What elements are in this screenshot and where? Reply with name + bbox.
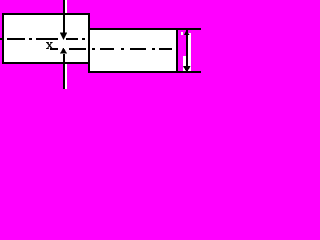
background <box>0 0 201 89</box>
white residue strip beside bottom offset leader <box>65 64 67 89</box>
axis centerline of small shaft (dash-dot, lower) <box>50 48 172 50</box>
large shaft body (left rectangle) <box>2 13 90 64</box>
bottom extension line (small shaft bottom edge extended to image edge) <box>178 71 201 73</box>
offset dimension leader from top (arrow down to upper axis) <box>60 0 67 40</box>
diameter dimension line of small shaft (double-headed vertical arrow) <box>183 30 191 73</box>
top extension line (small shaft top edge extended to image edge) <box>178 28 201 30</box>
white residue around right diameter dimension line <box>181 32 191 71</box>
white residue strip beside top offset leader <box>65 0 67 13</box>
small shaft body (right rectangle) <box>88 28 178 73</box>
offset dimension leader from bottom (arrow up to lower axis) <box>60 48 67 90</box>
axis centerline of large shaft (dash-dot, upper) <box>0 38 85 40</box>
label x (axis offset dimension) <box>46 42 53 49</box>
